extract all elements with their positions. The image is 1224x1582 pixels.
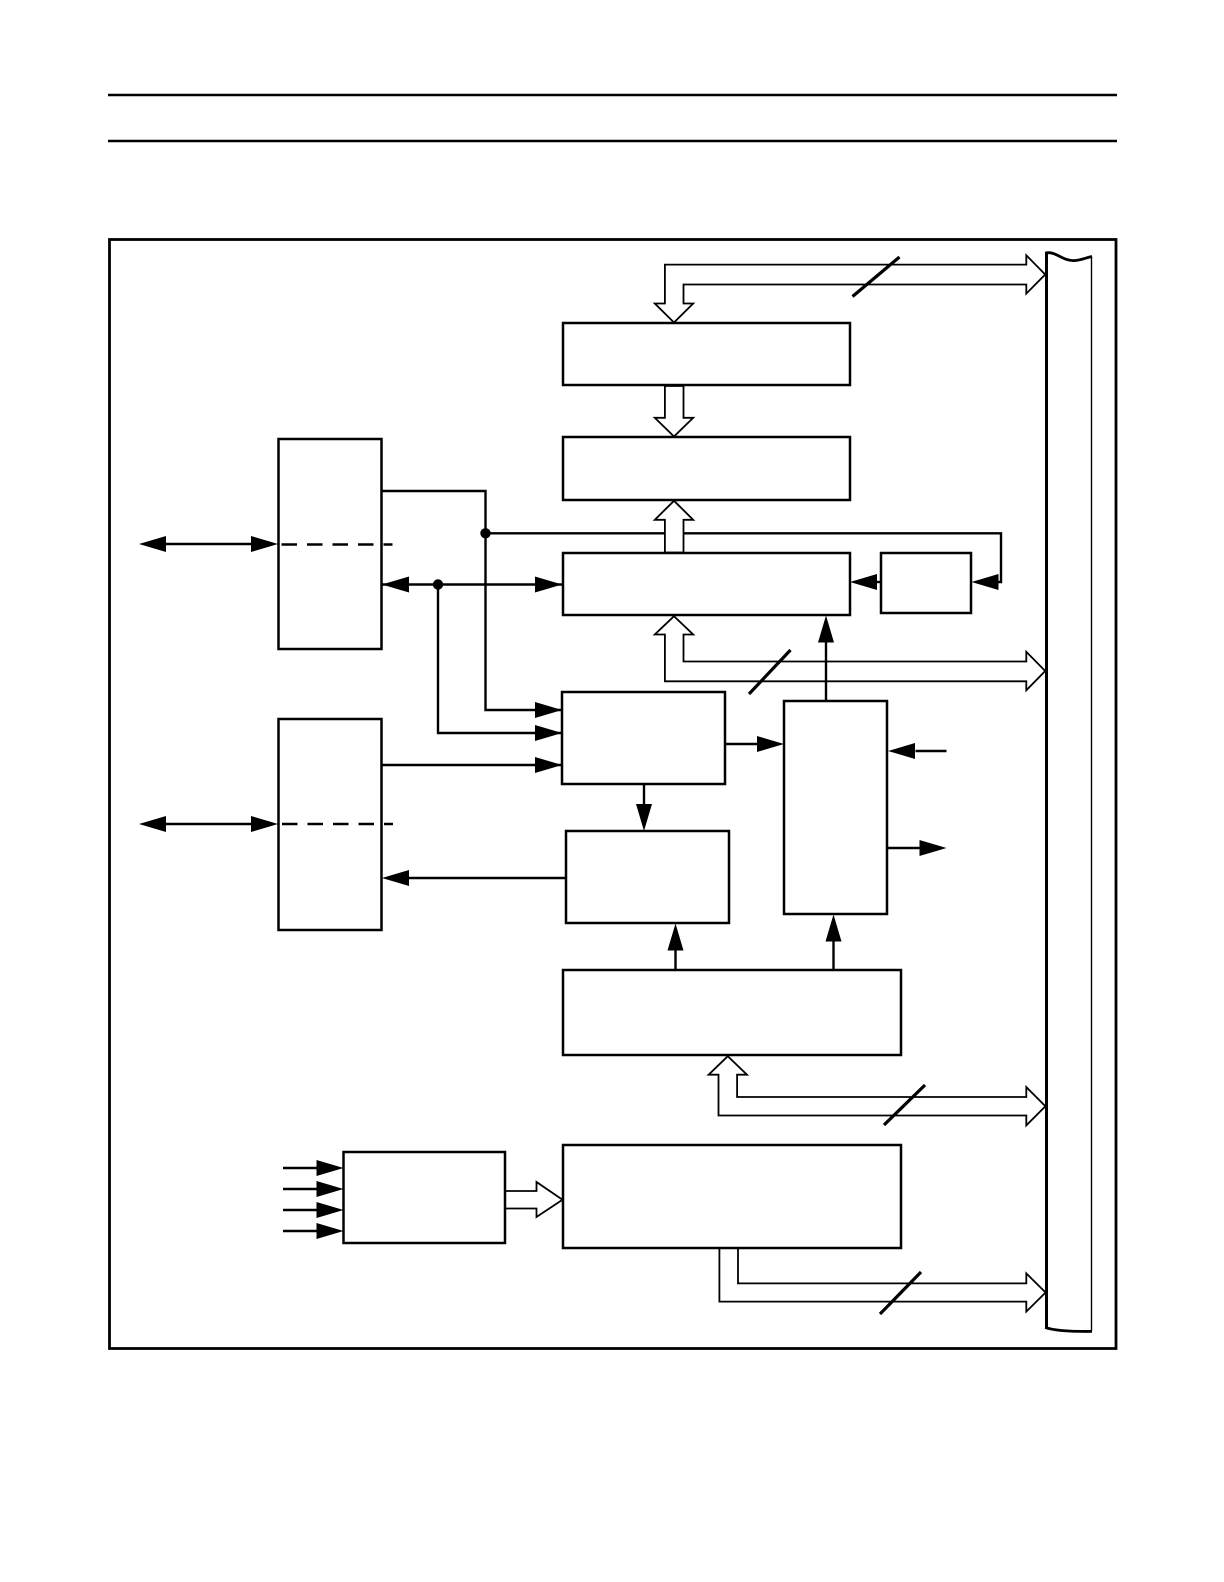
arrowhead left port0 inner: [251, 536, 278, 552]
arrowhead M2 to L2: [382, 870, 409, 886]
arrowhead B4 to B3: [850, 574, 877, 590]
arrowhead into T1 right input: [888, 743, 915, 759]
arrowhead T1 to B3 up: [818, 616, 834, 643]
block S1 oscillator: [344, 1152, 506, 1243]
dashed split line L2: [282, 823, 393, 825]
wire from node B down to second input: [438, 585, 561, 734]
arrowhead M1 to M2 down: [636, 804, 652, 831]
arrowhead left port2 inner: [251, 816, 278, 832]
wire register block to ram: [725, 743, 758, 745]
wire control to decoder (up): [674, 950, 676, 970]
bus width slash bottom: [880, 1272, 921, 1314]
wire port0 latch to program address (down from right edge y=491): [382, 491, 561, 710]
wire control to ram (up): [832, 941, 834, 970]
wire left bidirectional port2: [166, 823, 251, 825]
arrowhead M1 input 1: [535, 702, 562, 718]
bus arrow oscillator to W2 (hollow right): [506, 1182, 563, 1217]
bus arrow W2 to bar (hollow, down and right to bar): [719, 1249, 1045, 1312]
wire osc input 2: [283, 1188, 318, 1190]
arrowhead osc input 1: [317, 1160, 344, 1176]
wire B4 to B3 stub: [876, 581, 881, 583]
wire register block down to decoder: [643, 784, 645, 805]
wire ram right output stub: [887, 847, 920, 849]
arrowhead W1 to T1 up: [826, 915, 842, 942]
block M2 decoder: [566, 831, 729, 923]
bus width slash control: [884, 1085, 925, 1125]
arrowhead M1 input 2: [535, 725, 562, 741]
wire branch to buffer register (y=533 across): [486, 533, 1002, 582]
wire ram top to B3 (crosses hollow bus): [825, 637, 827, 701]
block B1 top register: [563, 323, 850, 385]
bus width slash mid: [749, 650, 791, 694]
header rule bottom: [108, 140, 1117, 143]
wire left bidirectional port0: [166, 543, 251, 545]
block B4 small buffer: [881, 553, 971, 613]
wire osc input 3: [283, 1209, 318, 1211]
bus arrow top (bar to block B1, double headed hollow): [655, 255, 1045, 322]
arrowhead M1 to T1: [757, 736, 784, 752]
arrowhead into B4 right: [972, 574, 999, 590]
block T1 ram tall: [784, 701, 887, 914]
wire decoder to port2 latch: [409, 877, 566, 879]
block L1 port latch upper: [279, 439, 382, 649]
bus width slash top: [853, 257, 900, 297]
wire osc input 4: [283, 1230, 318, 1232]
wire port0 bidirectional bus line: [382, 583, 562, 585]
internal bus bar top wavy edge: [1045, 253, 1092, 261]
arrowhead M1 input 3: [535, 757, 562, 773]
wire osc input 1: [283, 1167, 318, 1169]
internal bus bar right edge: [1091, 257, 1093, 1332]
diagram frame: [110, 240, 1117, 1349]
block L2 port latch lower: [279, 719, 382, 930]
bus arrow bar to control block (hollow, up into W1 and right to bar): [709, 1056, 1046, 1125]
wire ram right input stub: [916, 750, 947, 752]
node A junction dot: [480, 528, 490, 538]
wire port2 latch to third input: [382, 764, 561, 766]
block B2 middle register: [563, 437, 850, 500]
dashed split line L1: [282, 543, 393, 545]
block B3 lower register: [563, 553, 850, 615]
internal bus bar bottom wavy edge: [1045, 1327, 1092, 1331]
arrowhead port0 bus left: [382, 577, 409, 593]
arrowhead W1 to M2 up: [668, 924, 684, 951]
arrowhead osc input 3: [317, 1202, 344, 1218]
arrowhead left port0 outer: [139, 536, 166, 552]
node B junction dot: [433, 579, 443, 589]
block W1 control wide: [563, 970, 901, 1055]
bus arrow bar to B3 (hollow, up into B3 and right to bar): [655, 616, 1045, 690]
arrowhead osc input 4: [317, 1223, 344, 1239]
arrowhead left port2 outer: [139, 816, 166, 832]
arrowhead osc input 2: [317, 1181, 344, 1197]
internal bus bar left edge: [1045, 253, 1048, 1328]
arrowhead T1 output right: [920, 840, 947, 856]
header rule top: [108, 94, 1117, 97]
bus arrow B1 to B2 (hollow down): [655, 386, 693, 437]
block W2 bottom wide: [563, 1145, 901, 1248]
bus arrow B3 to B2 (hollow up): [655, 501, 693, 553]
arrowhead port0 bus right: [535, 577, 562, 593]
block M1 mux: [562, 692, 725, 784]
